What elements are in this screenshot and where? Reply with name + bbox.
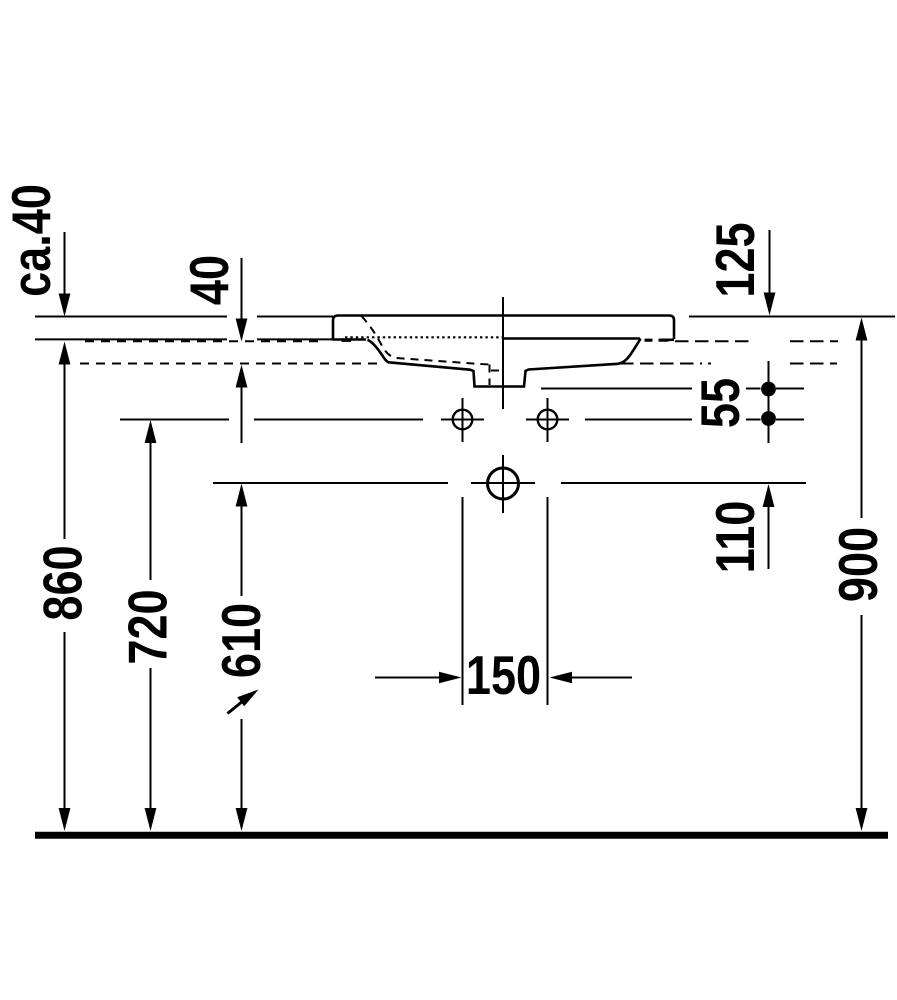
svg-text:720: 720 <box>116 589 178 664</box>
svg-text:110: 110 <box>704 501 766 574</box>
svg-text:150: 150 <box>466 644 541 706</box>
svg-text:860: 860 <box>31 545 93 620</box>
svg-text:125: 125 <box>704 222 766 297</box>
svg-text:40: 40 <box>178 255 240 305</box>
svg-text:55: 55 <box>689 378 751 428</box>
svg-text:900: 900 <box>827 527 889 602</box>
svg-text:ca.40: ca.40 <box>0 184 62 297</box>
svg-text:610: 610 <box>210 603 272 678</box>
